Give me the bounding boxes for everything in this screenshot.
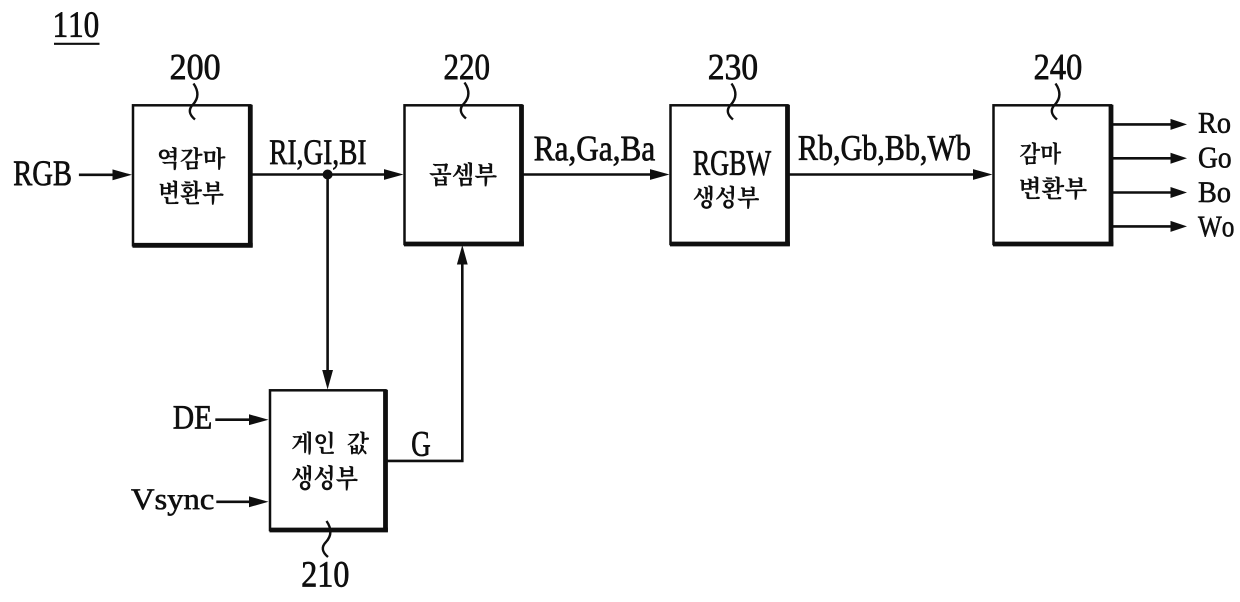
wire Vsync input — [216, 500, 250, 503]
wire node down to 210 — [326, 175, 329, 374]
block 210 (gain value generator) — [270, 390, 386, 530]
wire DE input — [215, 418, 252, 421]
wire output Ro — [1111, 123, 1171, 126]
text 변환부 (240) — [1020, 176, 1040, 199]
ref numeral 210 — [303, 562, 316, 586]
wire 200 to 220 — [250, 173, 387, 176]
signal label Ra,Ga,Ba — [535, 137, 555, 161]
output label Go — [1199, 148, 1217, 168]
wire output Go — [1111, 157, 1171, 160]
label 110 — [55, 12, 66, 36]
block 240 (gamma converter) — [994, 105, 1112, 244]
text 생성부 — [694, 185, 713, 208]
wire output Bo — [1111, 191, 1171, 194]
signal label G — [412, 432, 430, 456]
wire RGB input — [79, 174, 116, 177]
output label Bo — [1199, 182, 1216, 202]
wire 220 to 230 — [522, 173, 654, 176]
leader line 240 — [1052, 84, 1060, 120]
output label Ro — [1199, 113, 1217, 133]
input label RGB — [14, 162, 32, 186]
text 변환부 — [159, 180, 178, 204]
leader line 230 — [728, 84, 736, 120]
text 감마 — [1020, 142, 1040, 165]
input label Vsync — [131, 489, 154, 509]
wire output Wo — [1111, 225, 1171, 228]
leader line 220 — [461, 83, 469, 119]
junction node — [323, 170, 333, 180]
leader line 210 — [323, 521, 331, 557]
signal label RI,GI,BI — [270, 140, 287, 164]
text 게인 값 — [292, 431, 311, 454]
wire G from 210 up to 220 — [386, 460, 464, 463]
output label Wo — [1198, 217, 1222, 237]
signal label Rb,Gb,Bb,Wb — [799, 136, 818, 160]
text RGBW — [694, 151, 711, 175]
ref numeral 220 — [445, 55, 457, 79]
block 200 (inverse gamma converter) — [133, 105, 250, 245]
input label DE — [174, 406, 193, 428]
text 생성부 (210) — [292, 465, 311, 491]
text 역감마 — [159, 147, 177, 170]
leader line 200 — [190, 84, 198, 120]
text 곱셈부 — [429, 163, 451, 186]
block 230 (RGBW generator) — [671, 105, 788, 244]
ref numeral 230 — [709, 55, 722, 79]
ref numeral 200 — [171, 55, 185, 79]
wire 230 to 240 — [788, 173, 977, 176]
ref numeral 240 — [1035, 55, 1048, 79]
block 220 (multiplier) — [405, 105, 522, 244]
